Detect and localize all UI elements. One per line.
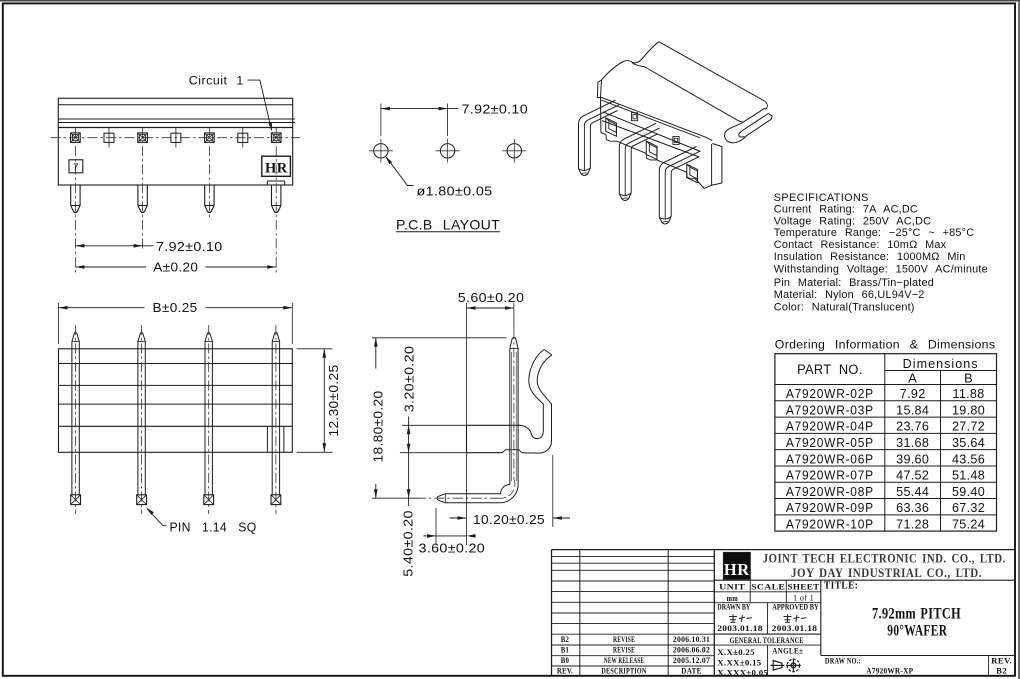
svg-text:A7920WR-02P: A7920WR-02P <box>786 387 874 401</box>
svg-text:A7920WR-08P: A7920WR-08P <box>786 485 874 499</box>
ordering table row A7920WR-02P <box>786 387 985 401</box>
ordering table row A7920WR-05P <box>786 436 985 450</box>
svg-text:75.24: 75.24 <box>952 517 985 531</box>
svg-text:Ordering Information & Dimensi: Ordering Information & Dimensions <box>775 337 996 351</box>
third angle projection symbol <box>770 658 800 672</box>
ordering table row A7920WR-09P <box>786 501 985 515</box>
ordering table row A7920WR-07P <box>786 469 985 483</box>
Circuit 1 label and leader <box>189 74 272 132</box>
dimension A±0.20 front view <box>75 261 276 275</box>
svg-text:B0: B0 <box>561 656 569 665</box>
svg-text:2003.01.18: 2003.01.18 <box>717 623 763 633</box>
svg-text:B2: B2 <box>996 666 1007 676</box>
unit scale sheet cells <box>714 580 1015 655</box>
isometric view body bottom edge <box>601 133 695 179</box>
svg-text:7: 7 <box>73 162 79 173</box>
front view pin 2 <box>138 185 147 212</box>
isometric view pin 1 <box>579 100 620 175</box>
ordering table row A7920WR-03P <box>786 403 985 417</box>
svg-text:43.56: 43.56 <box>952 452 985 466</box>
svg-text:47.52: 47.52 <box>896 469 929 483</box>
svg-text:GENERAL TOLERANCE: GENERAL TOLERANCE <box>730 635 804 645</box>
svg-text:SHEET: SHEET <box>788 582 820 592</box>
svg-text:Temperature Range: −25°C ~ +85: Temperature Range: −25°C ~ +85°C <box>774 227 975 239</box>
svg-text:REV.: REV. <box>991 656 1012 666</box>
svg-text:X.XX±0.15: X.XX±0.15 <box>717 658 761 668</box>
front view horizontal centerline <box>51 137 301 139</box>
svg-text:Insulation Resistance: 1000MΩ: Insulation Resistance: 1000MΩ Min <box>774 251 966 263</box>
top view pin 2 <box>137 325 147 514</box>
front view pin 4 <box>272 185 281 212</box>
svg-text:Material: Nylon 66,UL94V−2: Material: Nylon 66,UL94V−2 <box>774 289 925 301</box>
svg-text:A7920WR-XP: A7920WR-XP <box>866 666 913 676</box>
svg-text:2006.06.02: 2006.06.02 <box>673 646 710 655</box>
ordering table row A7920WR-08P <box>786 485 985 499</box>
PCB layout hole 3 <box>502 139 526 163</box>
svg-text:A7920WR-04P: A7920WR-04P <box>786 420 874 434</box>
svg-text:35.64: 35.64 <box>952 436 985 450</box>
specifications text block <box>774 192 988 314</box>
top view pin 1 <box>71 325 81 514</box>
front view connector body outline <box>58 98 295 185</box>
svg-text:DATE: DATE <box>681 667 702 676</box>
svg-text:2003.01.18: 2003.01.18 <box>772 623 818 633</box>
ordering table row A7920WR-04P <box>786 420 985 434</box>
svg-text:A7920WR-10P: A7920WR-10P <box>786 517 874 531</box>
svg-text:B: B <box>964 370 973 385</box>
top view pin 4 <box>271 325 281 514</box>
svg-text:7.92: 7.92 <box>900 387 926 401</box>
side view pin centerline <box>421 329 515 498</box>
svg-text:Dimensions: Dimensions <box>903 356 979 371</box>
svg-text:59.40: 59.40 <box>952 485 985 499</box>
HR logo box <box>262 156 291 176</box>
svg-text:B2: B2 <box>561 635 569 644</box>
ordering table frame <box>775 354 997 531</box>
svg-text:DESCRIPTION: DESCRIPTION <box>601 667 646 676</box>
svg-text:15.84: 15.84 <box>896 403 929 417</box>
title cell <box>824 581 961 640</box>
svg-text:A7920WR-05P: A7920WR-05P <box>786 436 874 450</box>
svg-text:Circuit 1: Circuit 1 <box>189 74 244 88</box>
svg-text:ø1.80±0.05: ø1.80±0.05 <box>417 184 493 198</box>
isometric view socket holes <box>606 118 698 183</box>
svg-text:31.68: 31.68 <box>896 436 929 450</box>
dimension 5.60±0.20 side view <box>458 291 525 545</box>
svg-text:51.48: 51.48 <box>952 469 985 483</box>
svg-text:A7920WR-07P: A7920WR-07P <box>786 469 874 483</box>
company names <box>763 551 1006 580</box>
svg-text:7.92±0.10: 7.92±0.10 <box>156 240 223 254</box>
isometric view rear latch curl <box>725 102 773 143</box>
svg-text:UNIT: UNIT <box>719 582 745 592</box>
svg-text:7.92mm PITCH: 7.92mm PITCH <box>872 605 961 622</box>
dimension 10.20±0.25 side view <box>450 455 571 527</box>
general tolerance cell <box>714 634 821 677</box>
svg-text:Pin Material: Brass/Tin−plated: Pin Material: Brass/Tin−plated <box>774 277 934 289</box>
svg-text:P.C.B LAYOUT: P.C.B LAYOUT <box>396 216 500 232</box>
svg-text:REVISE: REVISE <box>613 635 635 644</box>
svg-text:Color: Natural(Translucent): Color: Natural(Translucent) <box>774 302 915 314</box>
svg-text:2006.10.31: 2006.10.31 <box>673 635 710 644</box>
svg-text:12.30±0.25: 12.30±0.25 <box>327 365 341 437</box>
svg-text:X.XXX±0.05: X.XXX±0.05 <box>717 667 768 677</box>
svg-text:Current Rating: 7A AC,DC: Current Rating: 7A AC,DC <box>774 204 918 216</box>
front view pin 4 mounting notch <box>267 181 284 185</box>
svg-text:Voltage Rating: 250V AC,DC: Voltage Rating: 250V AC,DC <box>774 216 931 228</box>
front view intermediate square slots <box>104 128 248 148</box>
isometric view body shelf <box>601 97 701 157</box>
svg-text:7.92±0.10: 7.92±0.10 <box>462 102 529 116</box>
dimension B±0.25 top view <box>59 301 293 344</box>
front view pin vertical centerlines <box>75 128 276 274</box>
svg-text:1 of 1: 1 of 1 <box>793 593 814 603</box>
title block frame <box>552 550 1016 676</box>
isometric view pin 2 <box>619 123 660 200</box>
isometric view polarity pads on wall <box>632 113 680 145</box>
PCB layout hole 1 <box>369 139 393 163</box>
revision table rows <box>552 556 715 666</box>
svg-text:SCALE: SCALE <box>751 582 785 592</box>
svg-text:2005.12.07: 2005.12.07 <box>673 656 710 665</box>
svg-text:A: A <box>908 370 917 385</box>
svg-text:JOINT TECH ELECTRONIC IND. CO.: JOINT TECH ELECTRONIC IND. CO., LTD. <box>763 551 1006 566</box>
revision table entries <box>557 635 710 676</box>
svg-text:71.28: 71.28 <box>896 517 929 531</box>
svg-text:5.60±0.20: 5.60±0.20 <box>458 291 525 305</box>
top view pin 3 <box>204 325 214 514</box>
front view pin 1 <box>71 185 80 212</box>
ordering table row A7920WR-06P <box>786 452 985 466</box>
circuit 7 marker box <box>69 160 83 174</box>
dimension 7.92±0.10 front view <box>75 240 222 254</box>
svg-text:19.80: 19.80 <box>952 403 985 417</box>
top view body outline <box>59 349 293 453</box>
svg-text:39.60: 39.60 <box>896 452 929 466</box>
drawn by approved by cells <box>714 602 821 634</box>
svg-text:27.72: 27.72 <box>952 420 985 434</box>
dimension 7.92±0.10 PCB layout <box>381 102 528 136</box>
svg-text:5.40±0.20: 5.40±0.20 <box>402 510 416 577</box>
ordering table row A7920WR-10P <box>786 517 985 531</box>
side view rear latch wall <box>522 350 552 454</box>
ordering table header text <box>797 356 979 386</box>
svg-text:NEW RELEASE: NEW RELEASE <box>604 656 644 665</box>
svg-text:B1: B1 <box>561 646 569 655</box>
svg-text:Withstanding Voltage: 1500V AC: Withstanding Voltage: 1500V AC/minute <box>774 263 988 275</box>
company logo black box <box>724 553 751 580</box>
front view pin 3 <box>205 185 214 212</box>
side view body cross-section <box>467 425 544 453</box>
svg-text:REV.: REV. <box>557 667 573 676</box>
svg-text:TITLE:: TITLE: <box>824 581 859 592</box>
isometric view housing cover wave profile <box>597 42 765 141</box>
dimension 3.60±0.20 side view <box>419 508 486 555</box>
dimension 12.30±0.25 top view <box>297 349 342 453</box>
side view pin with right-angle bend <box>437 337 518 502</box>
svg-text:APPROVED BY: APPROVED BY <box>772 602 819 611</box>
svg-text:63.36: 63.36 <box>896 501 929 515</box>
svg-text:A7920WR-03P: A7920WR-03P <box>786 403 874 417</box>
svg-text:10.20±0.25: 10.20±0.25 <box>473 513 545 527</box>
svg-text:18.80±0.20: 18.80±0.20 <box>372 391 386 463</box>
svg-text:3.20±0.20: 3.20±0.20 <box>402 346 416 413</box>
isometric view pin 3 <box>659 147 700 225</box>
svg-text:B±0.25: B±0.25 <box>153 301 198 315</box>
svg-text:JOY DAY INDUSTRIAL CO., LTD.: JOY DAY INDUSTRIAL CO., LTD. <box>791 565 982 580</box>
svg-text:67.32: 67.32 <box>952 501 985 515</box>
svg-text:11.88: 11.88 <box>952 387 984 401</box>
svg-text:A7920WR-06P: A7920WR-06P <box>786 452 874 466</box>
svg-text:X.X±0.25: X.X±0.25 <box>717 647 755 657</box>
svg-text:HR: HR <box>265 160 288 176</box>
dimension 5.40±0.20 side view <box>402 489 416 577</box>
drawing number cell <box>821 656 1015 677</box>
svg-text:23.76: 23.76 <box>896 420 929 434</box>
svg-text:SPECIFICATIONS: SPECIFICATIONS <box>774 192 869 204</box>
dimension 18.80±0.20 side view <box>372 338 507 498</box>
svg-text:mm: mm <box>726 593 738 603</box>
P.C.B LAYOUT title <box>396 216 500 232</box>
svg-text:REVISE: REVISE <box>613 646 635 655</box>
svg-text:A7920WR-09P: A7920WR-09P <box>786 501 874 515</box>
signature marks <box>729 614 807 622</box>
dimension 3.20±0.20 side view <box>400 346 467 506</box>
front view circuit contact pads (squares with X) <box>71 133 281 143</box>
svg-text:PART NO.: PART NO. <box>797 362 863 377</box>
isometric view right end wall <box>695 144 722 189</box>
svg-text:90°WAFER: 90°WAFER <box>887 622 947 639</box>
svg-text:PIN 1.14 SQ: PIN 1.14 SQ <box>170 519 257 534</box>
hole diameter leader ø1.80±0.05 <box>385 156 492 198</box>
svg-text:3.60±0.20: 3.60±0.20 <box>419 541 486 555</box>
PIN 1.14 SQ label and leader <box>146 507 257 534</box>
svg-text:ANGLE±: ANGLE± <box>772 645 803 655</box>
svg-text:Contact Resistance: 10mΩ Max: Contact Resistance: 10mΩ Max <box>774 239 947 251</box>
svg-text:DRAW NO.:: DRAW NO.: <box>825 656 861 666</box>
svg-text:A±0.20: A±0.20 <box>153 261 198 275</box>
svg-text:DRAWN BY: DRAWN BY <box>717 602 750 611</box>
svg-text:55.44: 55.44 <box>896 485 929 499</box>
PCB layout hole 2 <box>436 139 460 163</box>
svg-text:HR: HR <box>724 560 750 579</box>
